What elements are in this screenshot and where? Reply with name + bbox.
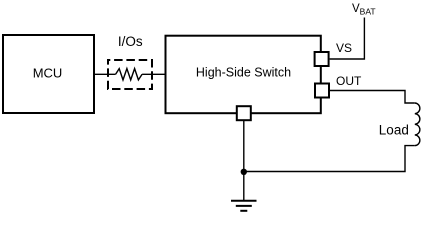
wire MCU to I/O resistor (95, 73, 116, 75)
resistor (I/O series resistor) (116, 69, 143, 80)
wire GND pin to ground symbol (243, 120, 245, 201)
svg-text:Load: Load (379, 123, 409, 138)
wire VS to VBAT (330, 18, 365, 60)
svg-text:MCU: MCU (33, 65, 63, 80)
pin OUT (square terminal) (315, 84, 329, 98)
High-Side Switch block (166, 36, 321, 114)
wire load bottom to ground junction (244, 146, 415, 172)
wire resistor to High-Side Switch (142, 73, 165, 75)
wire OUT to load (330, 91, 415, 104)
svg-text:I/Os: I/Os (118, 34, 143, 49)
pin GND (bottom square terminal) (237, 106, 251, 120)
svg-text:OUT: OUT (336, 74, 362, 88)
dashed I/O protection box (108, 60, 152, 89)
svg-text:VBAT: VBAT (352, 3, 376, 17)
junction dot (241, 169, 247, 175)
pin VS (square terminal) (315, 52, 329, 66)
MCU block (3, 35, 94, 113)
svg-text:VS: VS (336, 41, 352, 55)
ground (231, 201, 257, 211)
svg-text:High-Side Switch: High-Side Switch (196, 65, 291, 79)
inductor Load (coil) (415, 103, 420, 146)
